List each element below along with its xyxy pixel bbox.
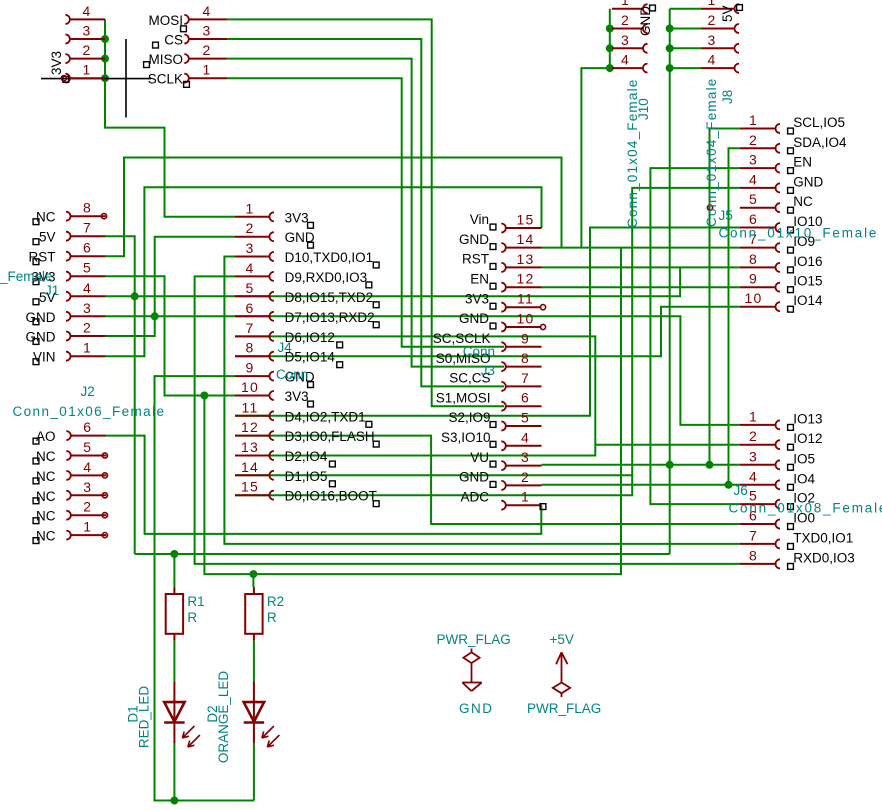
- svg-text:4: 4: [621, 52, 630, 68]
- svg-text:SCLK: SCLK: [148, 72, 183, 87]
- svg-text:D0,IO16,BOOT: D0,IO16,BOOT: [285, 489, 377, 504]
- svg-text:D3,IO0,FLASH: D3,IO0,FLASH: [285, 429, 375, 444]
- svg-text:4: 4: [521, 429, 530, 445]
- svg-text:GND: GND: [459, 311, 489, 326]
- svg-text:5: 5: [749, 191, 758, 207]
- svg-text:VIN: VIN: [33, 350, 56, 365]
- svg-text:MISO: MISO: [148, 52, 183, 67]
- svg-text:14: 14: [517, 231, 535, 247]
- svg-text:2: 2: [83, 42, 92, 58]
- svg-text:Conn_01x08_Female: Conn_01x08_Female: [729, 501, 882, 516]
- svg-text:RST: RST: [462, 252, 489, 267]
- svg-text:6: 6: [521, 390, 530, 406]
- svg-text:4: 4: [83, 280, 92, 296]
- svg-text:3: 3: [83, 300, 92, 316]
- svg-text:3: 3: [83, 23, 92, 39]
- svg-text:GND: GND: [26, 330, 56, 345]
- svg-text:2: 2: [621, 12, 630, 28]
- svg-text:ADC: ADC: [460, 489, 489, 504]
- svg-text:3: 3: [749, 448, 758, 464]
- svg-text:9: 9: [749, 271, 758, 287]
- svg-text:9: 9: [246, 360, 255, 376]
- svg-text:IO15: IO15: [793, 274, 822, 289]
- svg-text:IO12: IO12: [793, 431, 822, 446]
- svg-text:J6: J6: [734, 483, 748, 498]
- svg-text:R2: R2: [267, 594, 284, 609]
- svg-text:1: 1: [749, 408, 758, 424]
- svg-text:1: 1: [749, 112, 758, 128]
- svg-text:9: 9: [521, 330, 530, 346]
- svg-text:D10,TXD0,IO1: D10,TXD0,IO1: [285, 250, 374, 265]
- svg-text:2: 2: [203, 42, 212, 58]
- svg-text:8: 8: [749, 547, 758, 563]
- svg-text:10: 10: [745, 290, 763, 306]
- svg-text:1: 1: [521, 489, 530, 505]
- svg-text:5: 5: [246, 280, 255, 296]
- svg-text:2: 2: [708, 12, 717, 28]
- svg-text:J8: J8: [720, 90, 735, 104]
- svg-text:6: 6: [83, 240, 92, 256]
- svg-text:1: 1: [83, 62, 92, 78]
- svg-text:VU: VU: [470, 450, 489, 465]
- svg-text:2: 2: [749, 428, 758, 444]
- svg-text:5V: 5V: [720, 5, 735, 22]
- svg-text:ORANGE_LED: ORANGE_LED: [216, 671, 231, 764]
- svg-text:J4: J4: [278, 340, 293, 355]
- svg-text:11: 11: [242, 399, 259, 415]
- svg-text:7: 7: [521, 370, 530, 386]
- svg-text:2: 2: [83, 320, 92, 336]
- svg-text:4: 4: [83, 459, 92, 475]
- svg-text:4: 4: [749, 171, 758, 187]
- svg-text:D8,IO15,TXD2: D8,IO15,TXD2: [285, 290, 374, 305]
- svg-text:S3,IO10: S3,IO10: [441, 430, 491, 445]
- svg-text:1: 1: [246, 200, 255, 216]
- svg-text:NC: NC: [793, 194, 813, 209]
- svg-text:7: 7: [749, 527, 758, 543]
- svg-text:D1,IO5: D1,IO5: [285, 469, 328, 484]
- svg-text:2: 2: [521, 469, 530, 485]
- svg-text:Vin: Vin: [470, 212, 489, 227]
- svg-text:IO5: IO5: [793, 451, 815, 466]
- svg-text:4: 4: [246, 260, 255, 276]
- svg-text:7: 7: [246, 320, 255, 336]
- svg-text:J2: J2: [81, 384, 95, 399]
- svg-text:8: 8: [246, 340, 255, 356]
- svg-text:10: 10: [517, 311, 535, 327]
- svg-text:3V3: 3V3: [285, 389, 309, 404]
- svg-text:GND: GND: [459, 701, 494, 716]
- svg-text:8: 8: [521, 350, 530, 366]
- svg-text:IO16: IO16: [793, 254, 822, 269]
- svg-text:GND: GND: [459, 470, 489, 485]
- svg-text:6: 6: [83, 419, 92, 435]
- svg-text:Conn_01x06_Female: Conn_01x06_Female: [13, 404, 166, 419]
- svg-text:D6,IO12: D6,IO12: [285, 330, 335, 345]
- svg-text:IO13: IO13: [793, 411, 822, 426]
- svg-text:10: 10: [241, 379, 259, 395]
- svg-text:MOSI: MOSI: [148, 13, 183, 28]
- svg-text:PWR_FLAG: PWR_FLAG: [527, 701, 601, 716]
- svg-text:4: 4: [203, 3, 212, 19]
- svg-text:Conn: Conn: [463, 344, 495, 359]
- svg-text:5: 5: [83, 439, 92, 455]
- svg-text:3V3: 3V3: [49, 51, 64, 75]
- svg-text:3: 3: [203, 23, 212, 39]
- svg-text:3: 3: [521, 449, 530, 465]
- svg-text:13: 13: [517, 251, 535, 267]
- svg-text:D9,RXD0,IO3: D9,RXD0,IO3: [285, 270, 368, 285]
- svg-text:D2,IO4: D2,IO4: [285, 449, 328, 464]
- svg-text:Conn_01x10_Female: Conn_01x10_Female: [719, 226, 879, 241]
- svg-text:SDA,IO4: SDA,IO4: [793, 135, 847, 150]
- svg-text:2: 2: [749, 132, 758, 148]
- svg-text:J10: J10: [636, 98, 651, 120]
- svg-text:CS: CS: [164, 33, 183, 48]
- svg-text:5: 5: [83, 260, 92, 276]
- svg-text:RXD0,IO3: RXD0,IO3: [793, 550, 855, 565]
- svg-text:IO4: IO4: [793, 471, 815, 486]
- svg-text:11: 11: [517, 291, 534, 307]
- svg-text:1: 1: [203, 62, 212, 78]
- svg-text:S2,IO9: S2,IO9: [448, 410, 490, 425]
- svg-text:2: 2: [246, 220, 255, 236]
- svg-text:3: 3: [708, 32, 717, 48]
- svg-text:D7,IO13,RXD2: D7,IO13,RXD2: [285, 310, 375, 325]
- svg-text:TXD0,IO1: TXD0,IO1: [793, 530, 853, 545]
- svg-text:3V3: 3V3: [465, 291, 489, 306]
- svg-text:IO14: IO14: [793, 293, 823, 308]
- svg-text:RED_LED: RED_LED: [136, 686, 151, 749]
- svg-text:GND: GND: [793, 174, 823, 189]
- svg-text:GND: GND: [459, 232, 489, 247]
- svg-text:3: 3: [749, 152, 758, 168]
- svg-text:4: 4: [749, 468, 758, 484]
- svg-text:EN: EN: [470, 271, 489, 286]
- svg-text:GND: GND: [26, 310, 56, 325]
- svg-text:J5: J5: [719, 208, 733, 223]
- svg-text:Conn_01x04_Female: Conn_01x04_Female: [704, 78, 719, 228]
- svg-text:J3: J3: [481, 363, 495, 378]
- svg-text:15: 15: [241, 479, 259, 495]
- svg-text:12: 12: [517, 271, 535, 287]
- svg-text:15: 15: [517, 212, 535, 228]
- svg-text:D5,IO14: D5,IO14: [285, 350, 336, 365]
- svg-text:2: 2: [83, 499, 92, 515]
- svg-text:1: 1: [83, 340, 92, 356]
- svg-text:Conn: Conn: [276, 367, 308, 382]
- svg-text:5: 5: [521, 410, 530, 426]
- svg-text:1: 1: [83, 519, 92, 535]
- svg-text:R: R: [187, 610, 197, 625]
- svg-text:3: 3: [83, 479, 92, 495]
- svg-text:J1: J1: [45, 283, 59, 298]
- svg-text:13: 13: [241, 439, 259, 455]
- svg-text:1: 1: [708, 0, 717, 8]
- svg-text:EN: EN: [793, 155, 812, 170]
- svg-text:R1: R1: [187, 594, 204, 609]
- svg-text:5V: 5V: [39, 230, 56, 245]
- svg-text:12: 12: [241, 419, 259, 435]
- svg-text:R: R: [267, 610, 277, 625]
- svg-text:_Female: _Female: [0, 269, 53, 284]
- svg-text:S1,MOSI: S1,MOSI: [436, 390, 491, 405]
- svg-text:3: 3: [246, 240, 255, 256]
- svg-text:PWR_FLAG: PWR_FLAG: [437, 632, 511, 647]
- svg-text:SCL,IO5: SCL,IO5: [793, 115, 845, 130]
- svg-text:14: 14: [241, 459, 259, 475]
- svg-text:1: 1: [621, 0, 630, 8]
- svg-text:3V3: 3V3: [285, 210, 309, 225]
- svg-text:8: 8: [83, 200, 92, 216]
- svg-text:7: 7: [83, 220, 92, 236]
- svg-text:4: 4: [83, 3, 92, 19]
- svg-text:D4,IO2,TXD1: D4,IO2,TXD1: [285, 409, 366, 424]
- svg-text:3: 3: [621, 32, 630, 48]
- svg-text:8: 8: [749, 251, 758, 267]
- svg-text:+5V: +5V: [550, 632, 574, 647]
- svg-text:6: 6: [246, 300, 255, 316]
- svg-text:4: 4: [708, 52, 717, 68]
